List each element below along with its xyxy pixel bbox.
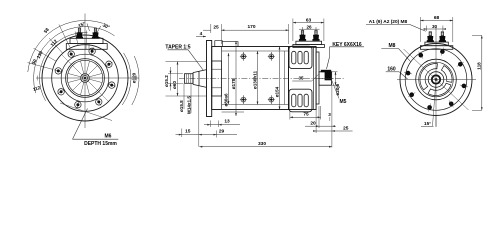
dim dia 15.2 <box>170 67 172 91</box>
right view bearing ring outer <box>416 59 457 100</box>
dim 15 deg bottom <box>435 116 437 127</box>
left view shaft circle <box>82 75 87 80</box>
left view M6 leader <box>73 109 88 140</box>
svg-text:ø80a6: ø80a6 <box>223 93 228 106</box>
svg-text:M14x1.5: M14x1.5 <box>186 96 191 114</box>
left view diagonal centerline upper <box>61 54 109 102</box>
body internal partition <box>221 47 223 110</box>
left view angular dim line 30deg <box>97 26 101 34</box>
svg-text:15°: 15° <box>424 121 431 126</box>
right end view outer circle <box>400 44 472 116</box>
dim 63 <box>292 19 294 42</box>
tie bolt top left <box>240 52 247 61</box>
left view flange circle <box>52 45 119 112</box>
tie bolt top right <box>268 52 275 61</box>
svg-text:25: 25 <box>213 25 219 31</box>
svg-text:15: 15 <box>185 129 191 135</box>
left view base center detail <box>85 44 87 50</box>
dim 20 bottom <box>318 106 320 128</box>
svg-text:63: 63 <box>306 17 312 23</box>
svg-text:ø15.2: ø15.2 <box>164 75 169 87</box>
right view hub outer <box>428 72 444 88</box>
svg-text:13: 13 <box>224 118 230 124</box>
left view angular dim line 15deg <box>87 24 90 32</box>
body inner shell line bottom <box>222 104 289 106</box>
svg-text:26: 26 <box>306 24 312 29</box>
dim 15 bottom <box>181 129 183 138</box>
left view terminal base plate lower <box>66 44 107 50</box>
bearing boss <box>212 61 222 96</box>
dim dia 20j6 <box>335 72 337 85</box>
svg-text:M6: M6 <box>105 134 112 140</box>
svg-text:M5: M5 <box>340 99 347 105</box>
left view M6 bolt holes <box>54 47 115 108</box>
svg-text:ø60: ø60 <box>172 81 177 89</box>
bottom vent cover <box>289 89 312 112</box>
dim 13 <box>209 121 211 128</box>
left view dimension arc inner <box>39 33 87 101</box>
tie bolt bottom left <box>240 95 247 104</box>
brush housing section <box>289 47 317 110</box>
right view kidney slots <box>420 64 452 96</box>
left view commutator ring inner <box>67 60 102 95</box>
label dia 15.8 <box>183 83 185 109</box>
left view terminal base plate upper <box>70 38 103 43</box>
right view scalloped flange circle <box>405 49 467 111</box>
body inner shell line top <box>222 50 289 52</box>
left view hub circle <box>81 74 90 83</box>
left view dimension arc right outer <box>132 56 139 105</box>
housing inner edge <box>313 47 315 110</box>
svg-text:35: 35 <box>298 76 304 81</box>
right view diagonal centerline <box>404 49 469 110</box>
right terminal stud T1 <box>427 32 434 42</box>
shaft threaded end M14 <box>185 74 194 84</box>
svg-text:29: 29 <box>219 129 225 135</box>
dim 3 ticks <box>329 117 331 121</box>
svg-text:ø178: ø178 <box>231 78 236 89</box>
svg-text:M8: M8 <box>389 43 396 49</box>
right view terminal base lower <box>420 46 452 50</box>
dim 30 <box>426 26 428 32</box>
left view commutator ring outer <box>66 59 105 98</box>
right view centerline horizontal <box>397 79 476 81</box>
dim 75 <box>289 111 291 120</box>
left view armature spokes <box>68 61 102 95</box>
svg-text:30: 30 <box>432 24 438 29</box>
right view centerline vertical <box>435 27 437 127</box>
dim 170 <box>288 24 290 44</box>
left view terminal stud T2 <box>92 28 99 38</box>
dim 25 right <box>331 86 333 148</box>
dim dia 154 <box>279 47 281 110</box>
shaft key outline <box>321 70 331 72</box>
label M14x1.5 <box>190 83 192 113</box>
left view dimension arc right inner <box>122 53 131 105</box>
left view dimension arc middle wrap <box>34 27 115 94</box>
svg-text:68: 68 <box>434 15 440 21</box>
right view bolt holes <box>404 48 468 112</box>
right view hub dark ring <box>432 75 440 83</box>
tie bolt bottom right <box>268 95 275 104</box>
left view terminal stud T1 <box>76 28 83 38</box>
left view radial dim lines <box>28 25 87 70</box>
front flange plate <box>207 41 212 117</box>
body top step <box>215 41 238 47</box>
dim 68 <box>419 17 421 42</box>
left view bolt boss circle <box>61 54 109 102</box>
left view centerline end ticks <box>37 76 39 81</box>
dim dia 178 <box>235 41 237 116</box>
top vent cover <box>289 46 312 68</box>
svg-text:ø120: ø120 <box>132 72 137 83</box>
svg-text:20: 20 <box>310 121 316 127</box>
svg-text:ø130h11: ø130h11 <box>252 70 257 89</box>
svg-text:170: 170 <box>247 24 255 30</box>
svg-text:ø15.8: ø15.8 <box>179 100 184 112</box>
svg-text:118: 118 <box>477 62 482 70</box>
output shaft right <box>319 72 332 85</box>
motor body outline <box>212 47 289 110</box>
middle terminal stud T2 <box>312 31 319 41</box>
left end view outer body circle <box>42 35 128 121</box>
shaft centerline stub <box>319 78 334 80</box>
middle terminal stud T1 <box>299 31 306 41</box>
dim 25 top <box>210 24 212 33</box>
dim 29 <box>199 134 237 136</box>
dim 118 <box>472 34 482 36</box>
extension line for 80a6 <box>222 111 244 113</box>
shaft taper section <box>193 70 207 88</box>
left view dimension arc outer <box>28 20 103 72</box>
dim dia 130h11 <box>257 51 259 105</box>
stator stack end line <box>284 51 286 105</box>
svg-text:ø20j6: ø20j6 <box>335 83 340 95</box>
svg-text:25: 25 <box>343 126 349 132</box>
right view bearing ring inner <box>419 62 454 97</box>
svg-text:330: 330 <box>258 141 266 147</box>
dim dia 80a6 <box>228 53 230 104</box>
svg-text:3: 3 <box>328 112 331 117</box>
svg-text:DEPTH 15mm: DEPTH 15mm <box>84 141 117 147</box>
middle view terminal base upper <box>296 41 322 44</box>
right view terminal base upper <box>425 42 448 46</box>
end plate <box>316 52 319 104</box>
label M5 leader <box>332 80 339 99</box>
bottom vent slots <box>292 94 309 107</box>
dim 26 <box>302 27 304 31</box>
dim 330 <box>199 146 332 148</box>
middle view terminal base lower <box>293 45 325 48</box>
dim dia 60 boss <box>166 61 207 63</box>
svg-text:75: 75 <box>303 111 309 117</box>
left view diagonal centerline to corner <box>60 103 112 121</box>
svg-text:4: 4 <box>200 31 203 37</box>
top vent slots <box>292 51 309 64</box>
right terminal stud T2 <box>439 32 446 42</box>
svg-text:ø154: ø154 <box>274 86 279 97</box>
middle view centerline <box>179 78 345 80</box>
left view centerline horizontal <box>36 77 139 79</box>
left view centerline vertical <box>84 14 86 129</box>
shaft end dark section <box>325 71 332 80</box>
